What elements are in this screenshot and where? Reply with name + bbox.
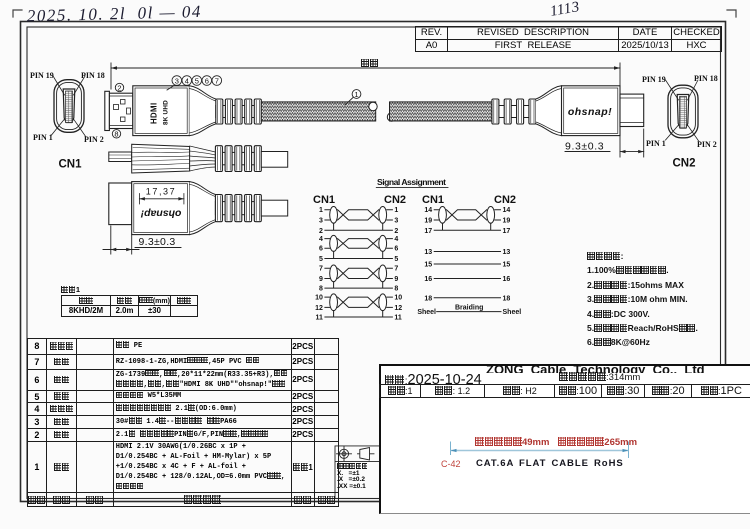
date row: [385, 372, 482, 388]
svg-text:2: 2: [117, 83, 121, 92]
pin labels 1+3+2: [319, 207, 398, 235]
svg-text:PIN 18: PIN 18: [694, 74, 718, 83]
svg-text:9: 9: [319, 276, 323, 283]
single wire pin 15: [424, 262, 510, 269]
svg-text:3: 3: [175, 76, 179, 85]
CN2 plug tip (row 1): [620, 94, 644, 126]
cable break right circle: [387, 113, 395, 121]
projection symbol box: [335, 446, 379, 499]
svg-text:1: 1: [394, 207, 398, 214]
C-42 label: [441, 459, 461, 469]
twisted pair 10+12+11: [325, 294, 393, 317]
svg-text:19: 19: [503, 218, 511, 225]
CN2 shell (row 1): [562, 86, 621, 136]
CN1 aluminium shell (row 1): [133, 86, 190, 136]
svg-text:16: 16: [424, 276, 432, 283]
CN2 connector face view: [668, 85, 698, 138]
single wire pin 13: [424, 249, 510, 256]
single wire pin 16: [424, 276, 510, 283]
svg-text:CN2: CN2: [384, 194, 406, 206]
svg-text:PIN 19: PIN 19: [642, 75, 666, 84]
svg-text:6: 6: [205, 76, 209, 85]
svg-text:CN1: CN1: [422, 194, 444, 206]
annex table label 附表1: [61, 285, 80, 294]
svg-text:4: 4: [394, 236, 398, 243]
svg-text:CN1: CN1: [59, 159, 83, 171]
company name (clipped): [486, 364, 750, 374]
twisted pair 1+3+2: [325, 207, 393, 231]
svg-text:5: 5: [319, 256, 323, 263]
svg-text:17: 17: [424, 228, 432, 235]
callouts 3 4 5 6 7: [167, 76, 222, 90]
svg-text:ohsnap!: ohsnap!: [568, 106, 612, 118]
svg-text:19: 19: [424, 218, 432, 225]
svg-text:Sheel: Sheel: [503, 309, 522, 316]
svg-text:17: 17: [503, 228, 511, 235]
svg-text:1: 1: [319, 207, 323, 214]
tolerance table text: [337, 463, 368, 491]
svg-text:Signal Assignment: Signal Assignment: [377, 177, 446, 187]
dimension 9.3 (CN2 tip): [565, 129, 644, 157]
svg-text:14: 14: [503, 207, 511, 214]
length dimension label 长度: [361, 58, 379, 68]
svg-text:8: 8: [394, 286, 398, 293]
CN2 face leader lines: [666, 80, 700, 142]
svg-text:PIN 1: PIN 1: [646, 139, 666, 148]
svg-text:6: 6: [394, 246, 398, 253]
svg-text:HDMI: HDMI: [150, 102, 159, 124]
twisted pair 7+9+8: [325, 265, 393, 288]
row3 boot taper: [190, 182, 216, 235]
crop mark top-left: [13, 10, 22, 17]
svg-text:5: 5: [195, 76, 199, 85]
cable break left circle: [369, 102, 377, 110]
pasted overlay panel: [379, 364, 750, 515]
svg-text:9: 9: [394, 276, 398, 283]
pin labels 10+12+11: [315, 295, 402, 322]
svg-text:7: 7: [394, 266, 398, 273]
svg-text:18: 18: [503, 295, 511, 302]
svg-text:11: 11: [394, 315, 402, 322]
svg-text:10: 10: [315, 295, 323, 302]
row2 cable end: [261, 152, 287, 168]
callout 1 (braid): [345, 90, 361, 105]
CN1 connector face view: [54, 80, 84, 133]
single wire pin 18: [424, 295, 510, 302]
parameter cells row: [379, 384, 750, 398]
svg-text:PIN 2: PIN 2: [697, 140, 717, 149]
row3 plug tip rect: [109, 183, 132, 225]
svg-text:CN1: CN1: [313, 194, 335, 206]
svg-text:5: 5: [394, 256, 398, 263]
row2 metal tube tip: [109, 152, 132, 162]
svg-text:3: 3: [394, 218, 398, 225]
cable print text: [476, 458, 624, 469]
svg-text:1: 1: [354, 90, 358, 99]
svg-text:9.3±0.3: 9.3±0.3: [139, 236, 176, 248]
svg-text:7: 7: [215, 76, 219, 85]
CN2 pin labels: [642, 74, 718, 149]
svg-text:Sheel: Sheel: [417, 309, 436, 316]
handwritten date annotation: [27, 2, 202, 26]
svg-text:2: 2: [319, 228, 323, 235]
dimension: overall length 长度: [111, 63, 620, 157]
row2 shield can body: [132, 144, 190, 173]
svg-text:3: 3: [319, 218, 323, 225]
CN1 boot taper (row 1): [189, 86, 215, 136]
braided cable right segment: [390, 102, 492, 121]
row2 corrugated boot: [215, 146, 261, 172]
svg-text:10: 10: [394, 295, 402, 302]
svg-text:17,37: 17,37: [146, 187, 177, 197]
crop mark top-right: [727, 10, 736, 17]
CN2 boot taper (row 1): [536, 86, 562, 136]
svg-text:18: 18: [424, 295, 432, 302]
svg-text:1113: 1113: [549, 0, 581, 20]
row3 corrugated boot: [215, 195, 261, 222]
BOM table: [27, 338, 339, 508]
CN1 face leader lines: [52, 76, 87, 137]
svg-text:4: 4: [319, 236, 323, 243]
pin labels 4+6+5: [319, 236, 398, 263]
revision table: [415, 26, 722, 52]
svg-text:13: 13: [503, 249, 511, 256]
callout 8 (shield): [112, 130, 120, 139]
CN2 corrugated boot (row 1): [492, 99, 536, 124]
CN1 corrugated boot (row 1): [216, 99, 261, 124]
shell engraving HDMI 8K UHD: [150, 100, 170, 125]
svg-text:CN2: CN2: [673, 158, 696, 170]
svg-text:4: 4: [185, 76, 189, 85]
dimension 17,37 (mold): [139, 187, 184, 205]
pin labels 7+9+8: [319, 266, 398, 293]
CN1 pin labels: [30, 71, 105, 144]
braiding shield wire: [417, 305, 521, 316]
svg-text:7: 7: [319, 266, 323, 273]
technical requirements text block: [587, 249, 698, 350]
svg-text:9.3±0.3: 9.3±0.3: [565, 141, 604, 153]
braided cable left segment: [261, 102, 375, 121]
svg-text:11: 11: [315, 315, 323, 322]
svg-text:12: 12: [394, 305, 402, 312]
svg-text:6: 6: [319, 246, 323, 253]
twisted pair 4+6+5: [325, 235, 393, 258]
svg-text:8K UHD: 8K UHD: [163, 100, 170, 125]
row3 cable end: [261, 200, 287, 216]
pin labels 14+19+17: [424, 207, 510, 235]
svg-text:8: 8: [319, 286, 323, 293]
svg-text:CN2: CN2: [494, 194, 516, 206]
svg-text:12: 12: [315, 305, 323, 312]
Signal Assignment title: [376, 177, 448, 188]
svg-text:15: 15: [503, 262, 511, 269]
svg-text:2: 2: [394, 228, 398, 235]
svg-text:PIN 2: PIN 2: [84, 135, 104, 144]
dimension 9.3±0.3 (row3 tip): [103, 226, 181, 254]
svg-text:ohsnap!: ohsnap!: [140, 208, 181, 220]
svg-text:PIN 18: PIN 18: [81, 71, 105, 80]
svg-text:PIN 1: PIN 1: [33, 133, 53, 142]
blue dimension line: [381, 366, 750, 517]
svg-text:14: 14: [424, 207, 432, 214]
red print-length annotation: [475, 437, 637, 448]
row2 wire fan into boot: [190, 146, 216, 171]
twisted pair 14+19+17: [434, 207, 500, 231]
CN1 plug tip (HDMI male, row 1): [105, 91, 133, 130]
svg-text:8: 8: [114, 130, 118, 139]
callout 2 (plug tip): [115, 83, 123, 92]
svg-text:Braiding: Braiding: [455, 305, 483, 312]
row3 mold body: [132, 182, 190, 235]
svg-text:16: 16: [503, 276, 511, 283]
annex table: [61, 295, 198, 317]
svg-text:13: 13: [424, 249, 432, 256]
svg-text:PIN 19: PIN 19: [30, 71, 54, 80]
signal column headers: [313, 194, 516, 206]
svg-text:15: 15: [424, 262, 432, 269]
